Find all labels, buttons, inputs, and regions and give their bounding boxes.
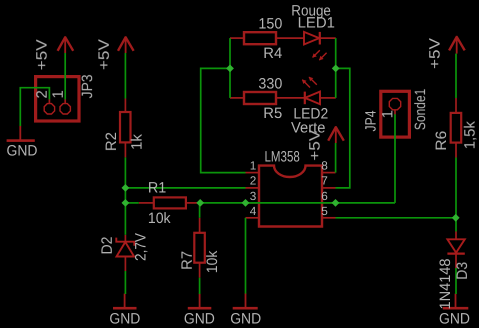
svg-text:1,5k: 1,5k: [462, 121, 479, 149]
ground symbol (op-amp pin 4): [233, 293, 258, 309]
resistor R1: [139, 197, 200, 208]
svg-text:LM358: LM358: [265, 148, 300, 165]
wire R2 column to R1: [125, 202, 138, 204]
svg-text:4: 4: [250, 204, 257, 218]
junction op-amp pin 3: [242, 199, 250, 207]
zener diode D2: [116, 235, 134, 271]
svg-text:1k: 1k: [129, 133, 146, 150]
svg-text:10k: 10k: [204, 250, 221, 273]
wire LED column LED1 cathode to LED2 anode: [335, 38, 337, 98]
svg-text:3: 3: [250, 189, 257, 203]
svg-text:5: 5: [321, 204, 328, 218]
wire R4/R5 left column: [229, 38, 231, 98]
LED LED1: [276, 32, 336, 61]
ground symbol (below JP3): [7, 126, 35, 142]
svg-text:1N4148: 1N4148: [437, 259, 454, 310]
wire pin 5 row to D3 column: [336, 217, 456, 219]
svg-text:JP4: JP4: [363, 111, 380, 132]
svg-text:1: 1: [250, 158, 257, 172]
svg-text:R6: R6: [433, 131, 450, 151]
wire R7 top: [199, 203, 201, 218]
supply +5V arrow (above R2): [118, 36, 134, 53]
resistor R2: [120, 99, 131, 158]
ground symbol (below D3): [443, 294, 469, 310]
wire D3 to GND: [455, 268, 457, 294]
junction LED midpoint: [332, 65, 340, 73]
wire R1 to pin 3 across body to pin 6 and JP4 column: [200, 202, 395, 204]
svg-text:2: 2: [250, 174, 257, 188]
resistor R5: [230, 92, 276, 104]
wire R7 bottom to GND: [199, 278, 201, 294]
junction R2 column pin 2 row: [122, 184, 130, 192]
resistor R6: [451, 98, 462, 158]
supply +5V arrow (above JP3 pin 1): [58, 36, 74, 53]
svg-text:2,7V: 2,7V: [133, 233, 150, 261]
svg-text:GND: GND: [7, 143, 38, 160]
supply +5V arrow (op-amp pin 8): [328, 126, 344, 143]
wire +5V to R6 top: [455, 54, 457, 98]
svg-text:10k: 10k: [148, 210, 171, 227]
wire JP3 pin 2 to GND: [20, 88, 49, 126]
junction R2 column pin 3 row: [122, 199, 130, 207]
diode D3: [447, 232, 464, 269]
op-amp U1 LM358 DIL8 body: [246, 166, 336, 227]
wire branch to op-amp pin 1: [201, 68, 246, 172]
connector JP3: [36, 77, 79, 121]
svg-text:GND: GND: [230, 310, 261, 327]
wire R2 bottom down to D2: [124, 157, 126, 234]
svg-text:LED1: LED1: [298, 14, 335, 31]
wire LED junction to op-amp pin 7: [336, 68, 350, 187]
wire D2 to GND: [124, 271, 126, 294]
svg-text:GND: GND: [439, 310, 470, 327]
svg-text:330: 330: [258, 76, 282, 93]
wire +5V to JP3 pin 1: [64, 53, 66, 99]
svg-text:8: 8: [321, 158, 328, 172]
wire +5V to R2 top: [124, 53, 126, 99]
LED LED2: [276, 77, 336, 105]
svg-text:R2: R2: [103, 132, 120, 151]
wire R6 bottom to D3: [455, 158, 457, 232]
connector JP4: [381, 91, 410, 137]
wire JP4 pin down to pin6 net: [394, 114, 396, 203]
ground symbol (below D2): [113, 294, 137, 310]
resistor R7: [194, 218, 205, 278]
svg-text:Verte: Verte: [291, 119, 325, 136]
resistor R4: [230, 32, 276, 44]
svg-text:1: 1: [50, 90, 67, 98]
svg-text:2: 2: [34, 90, 51, 98]
svg-text:R4: R4: [263, 45, 282, 62]
wire op-amp pin 4 to GND: [245, 218, 247, 294]
junction R4/R5 column branch: [226, 65, 234, 73]
svg-text:D2: D2: [99, 237, 116, 255]
svg-text:JP3: JP3: [79, 74, 96, 98]
svg-text:+5V: +5V: [34, 39, 51, 70]
junction pin 5 row D3 column: [452, 214, 460, 222]
svg-text:+5V: +5V: [427, 38, 444, 69]
svg-text:R7: R7: [179, 251, 196, 270]
svg-text:R1: R1: [148, 179, 166, 196]
junction R7 top: [196, 199, 204, 207]
svg-text:GND: GND: [184, 310, 215, 327]
svg-text:R5: R5: [263, 105, 282, 122]
wire pin 2 row: [125, 187, 245, 189]
svg-text:1: 1: [380, 110, 397, 118]
svg-text:150: 150: [258, 16, 282, 33]
svg-text:+5V: +5V: [96, 39, 113, 70]
svg-text:Sonde1: Sonde1: [412, 89, 429, 130]
wire +5V to op-amp pin 8: [335, 143, 337, 173]
supply +5V arrow (above R6): [449, 36, 465, 54]
ground symbol (below R7): [188, 294, 212, 310]
svg-text:7: 7: [321, 174, 328, 188]
junction op-amp pin 6: [332, 199, 340, 207]
svg-text:6: 6: [321, 189, 328, 203]
svg-text:D3: D3: [454, 262, 471, 280]
svg-text:GND: GND: [109, 310, 140, 327]
